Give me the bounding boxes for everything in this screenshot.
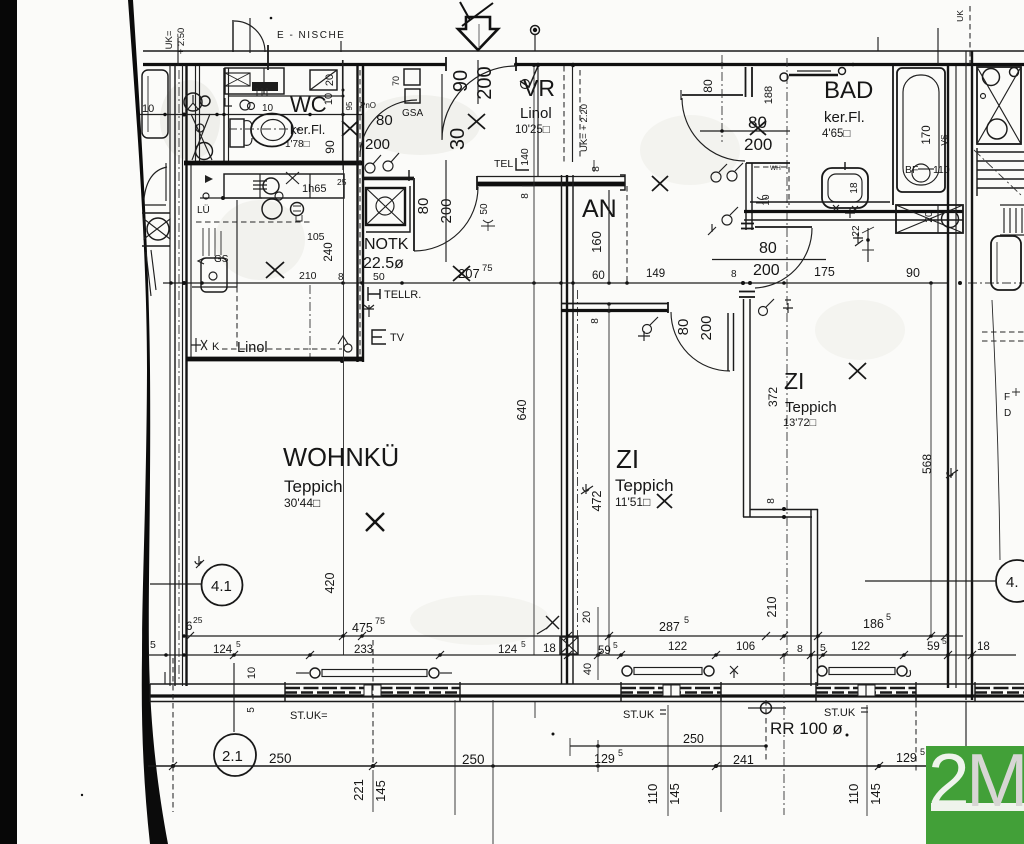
dim line 22 vertical xyxy=(867,228,869,262)
svg-text:5: 5 xyxy=(246,707,257,713)
neighbor dashed pair horizontal xyxy=(982,331,1024,333)
hall door stub wall xyxy=(745,67,747,97)
svg-text:640: 640 xyxy=(515,400,529,421)
svg-text:Teppich: Teppich xyxy=(615,476,674,495)
ZI divider wall upper pair xyxy=(743,299,745,517)
svg-text:UK: UK xyxy=(955,10,965,22)
handle circles near hall xyxy=(711,172,721,182)
top outer wall thick line right of entrance xyxy=(516,63,1024,66)
party wall line c xyxy=(965,51,967,700)
entrance door swing arc xyxy=(442,66,516,140)
GS sink xyxy=(201,258,227,292)
svg-text:Linol: Linol xyxy=(237,340,268,356)
ticks on dim chains xyxy=(186,632,976,659)
hook line to right 4.1 xyxy=(865,580,996,582)
kitchen right wall dashed axis xyxy=(359,70,361,355)
reference circle 2.1 xyxy=(214,734,256,776)
kitchen counter row top xyxy=(224,174,344,198)
left outer wall line b xyxy=(174,65,176,686)
svg-text:1'78□: 1'78□ xyxy=(285,139,310,150)
party wall line b xyxy=(955,66,957,688)
scan page-edge curve xyxy=(128,0,168,844)
svg-text:25: 25 xyxy=(337,177,347,187)
GSA boxes xyxy=(404,69,420,85)
entry boiler circle xyxy=(196,143,213,160)
svg-text:WOHNKÜ: WOHNKÜ xyxy=(283,444,399,472)
entry corridor wall double xyxy=(195,66,197,163)
tick at spine top xyxy=(522,185,534,187)
entry valve circle xyxy=(196,124,204,132)
svg-text:122: 122 xyxy=(851,641,870,653)
upper dim chain y636 xyxy=(183,635,963,637)
svg-text:8: 8 xyxy=(766,498,777,504)
svg-text:ST.UK: ST.UK xyxy=(824,707,856,719)
GS hatch strokes xyxy=(203,228,221,256)
wall below VR thick xyxy=(477,182,625,187)
svg-text:250: 250 xyxy=(462,752,485,767)
hall door swing arc xyxy=(682,98,745,161)
svg-text:4.: 4. xyxy=(1006,574,1019,591)
svg-text:186: 186 xyxy=(863,617,884,631)
bottom outer wall upper line xyxy=(150,683,1024,685)
svg-text:475: 475 xyxy=(352,621,373,635)
svg-text:VR: VR xyxy=(523,75,555,101)
svg-text:10: 10 xyxy=(323,93,335,105)
AN dim line vertical xyxy=(608,190,610,281)
handle circles 010 xyxy=(240,100,250,110)
svg-text:NOTK: NOTK xyxy=(364,236,409,253)
ZI-right door swing arc xyxy=(755,228,812,288)
svg-text:106: 106 xyxy=(736,641,755,653)
svg-text:210: 210 xyxy=(299,270,317,282)
WC right wall xyxy=(342,60,344,161)
svg-text:8: 8 xyxy=(797,643,803,655)
small survey circle on top wall xyxy=(531,26,540,35)
svg-text:TV: TV xyxy=(390,332,405,344)
svg-text:UK= + 2.20: UK= + 2.20 xyxy=(579,104,590,152)
WC door swing arc xyxy=(360,100,417,157)
ZI-right door leaf xyxy=(755,226,812,228)
svg-text:8: 8 xyxy=(731,269,737,280)
svg-text:40: 40 xyxy=(582,663,594,675)
svg-text:80: 80 xyxy=(675,319,692,336)
box with diagonal on top wall xyxy=(310,70,337,90)
svg-text:75: 75 xyxy=(375,616,385,626)
wall below VR thin xyxy=(364,177,414,179)
hook symbol near 472 xyxy=(581,484,593,494)
svg-text:110: 110 xyxy=(846,784,861,805)
svg-text:124: 124 xyxy=(498,644,518,656)
svg-text:80: 80 xyxy=(759,240,777,257)
svg-text:170: 170 xyxy=(921,125,933,144)
svg-text:8: 8 xyxy=(520,193,531,199)
entrance jamb right xyxy=(515,57,517,71)
dash-dot tail below logo line x784 xyxy=(783,655,785,815)
svg-text:129: 129 xyxy=(896,751,917,765)
svg-text:LÜ: LÜ xyxy=(197,204,210,216)
X mark at WC right xyxy=(342,121,358,136)
dim chain line y114 xyxy=(140,114,362,116)
svg-text:145: 145 xyxy=(868,783,883,805)
vertical axis x173 lower xyxy=(172,658,174,812)
NOTK door dim line xyxy=(445,160,447,262)
X tick right of window1 xyxy=(546,616,559,629)
svg-text:10: 10 xyxy=(142,103,154,115)
door handle circles below WC xyxy=(365,163,375,173)
left wall axis dash-dot xyxy=(178,70,180,680)
ZI-right door jamb upper xyxy=(741,223,754,225)
svg-text:250: 250 xyxy=(269,751,292,766)
entrance dim line vertical xyxy=(441,74,443,139)
spine axis dash-dot xyxy=(577,290,579,640)
svg-text:13'72□: 13'72□ xyxy=(783,417,817,429)
svg-text:WC: WC xyxy=(290,92,327,117)
label GS with bracket xyxy=(198,258,204,264)
svg-text:10'25□: 10'25□ xyxy=(515,124,550,136)
party wall line d thick xyxy=(971,51,973,700)
left outer wall line c xyxy=(182,65,184,686)
svg-text:Teppich: Teppich xyxy=(785,399,837,416)
north arrow outline xyxy=(458,17,498,50)
entry small circle xyxy=(200,96,210,106)
svg-text:20: 20 xyxy=(924,211,935,223)
NOTK shaft L-wall xyxy=(362,178,413,180)
stove circles row2 xyxy=(262,199,282,219)
X mark hall xyxy=(652,176,668,191)
NOTK door jamb xyxy=(476,176,478,190)
X mark small counter xyxy=(286,172,299,184)
bathtub inner xyxy=(903,75,939,185)
neighbor valve bowtie xyxy=(142,212,170,214)
drain symbol circle-plus xyxy=(761,703,772,714)
shower cell dashed front xyxy=(754,166,790,168)
entrance jamb left xyxy=(445,57,447,71)
kitchen door hinge symbol xyxy=(338,336,348,344)
svg-text:210: 210 xyxy=(765,597,779,618)
svg-text:22: 22 xyxy=(851,225,862,237)
svg-text:30'44□: 30'44□ xyxy=(284,496,320,510)
svg-text:ST.UK: ST.UK xyxy=(623,709,655,721)
svg-text:250: 250 xyxy=(683,732,704,746)
E-Nische door swing arc xyxy=(234,21,265,52)
AN south wall stub thick xyxy=(561,309,668,312)
top outer wall thin line xyxy=(143,50,1024,52)
svg-text:5: 5 xyxy=(150,639,156,651)
svg-text:22.5ø: 22.5ø xyxy=(363,255,404,272)
spine wall line a xyxy=(561,175,563,684)
reference circle 4.1 right xyxy=(996,560,1024,602)
svg-text:TEL: TEL xyxy=(494,158,513,170)
svg-text:1h65: 1h65 xyxy=(302,183,326,195)
neighbor shaft top-right xyxy=(977,67,1021,144)
VR closet dashed lines xyxy=(563,66,565,162)
window 3 opener xyxy=(817,666,827,676)
svg-text:20: 20 xyxy=(581,611,593,623)
svg-text:F: F xyxy=(1004,392,1010,403)
X-box shaft in bottom wall xyxy=(560,637,578,654)
svg-text:6: 6 xyxy=(186,621,192,633)
svg-text:20: 20 xyxy=(324,74,336,86)
ZI-left door swing arc xyxy=(671,312,730,371)
WC top boundary line xyxy=(228,95,343,97)
small dot marks lower area xyxy=(846,734,849,737)
X mark ZI right xyxy=(849,363,866,379)
NOTK shaft outer L xyxy=(366,186,410,232)
svg-text:5: 5 xyxy=(521,639,526,649)
ZI-left door leaf double xyxy=(727,313,729,371)
svg-text:GS: GS xyxy=(214,254,229,265)
svg-text:240: 240 xyxy=(323,242,335,261)
dot on wall at entrance xyxy=(514,63,518,67)
counter sink circles xyxy=(263,178,279,194)
svg-text:80: 80 xyxy=(415,198,432,215)
svg-text:18: 18 xyxy=(849,182,860,194)
svg-text:200: 200 xyxy=(744,135,772,154)
svg-text:4'65□: 4'65□ xyxy=(822,128,850,140)
closet inner dark bar xyxy=(252,82,278,91)
vertical axis x598 xyxy=(597,607,599,680)
lower dim chain y655 xyxy=(148,654,1016,656)
wall end cap at hall xyxy=(620,175,625,190)
corner marker entry xyxy=(205,175,213,183)
neighbor tall cupboard left xyxy=(142,70,168,138)
ZI-right door jamb lower xyxy=(739,291,755,293)
svg-text:110: 110 xyxy=(645,784,660,805)
window 1 panes xyxy=(285,687,460,690)
svg-text:4.1: 4.1 xyxy=(211,578,232,595)
svg-text:200: 200 xyxy=(474,66,496,99)
kitchen bottom thick wall xyxy=(186,357,364,362)
svg-text:18: 18 xyxy=(543,643,556,655)
bottom dim chain y766 xyxy=(148,765,926,767)
svg-text:5: 5 xyxy=(920,747,925,757)
label K with hook xyxy=(191,338,207,352)
WOHNKÜ dim axis x343 xyxy=(343,165,345,655)
TV bracket xyxy=(372,330,386,344)
small circle below LU xyxy=(203,193,209,199)
door handle symbol near leaf xyxy=(759,307,768,316)
ZI-left dim line x609 lower xyxy=(608,304,610,655)
center dim axis x528 xyxy=(532,63,536,67)
bath south wall thin xyxy=(750,201,890,203)
svg-text:ker.Fl.: ker.Fl. xyxy=(824,109,865,126)
main horizontal dim chain y283 xyxy=(163,282,948,284)
north arrow tail diagonal long xyxy=(462,3,493,26)
ZI divider step horizontal xyxy=(750,509,818,511)
svg-text:124: 124 xyxy=(213,644,233,656)
vertical axis x373 xyxy=(372,640,374,768)
svg-text:5: 5 xyxy=(618,748,623,758)
shaft below tub xyxy=(896,205,963,233)
svg-text:160: 160 xyxy=(589,231,604,253)
E-Nische middle post xyxy=(249,18,251,53)
hook below shaft xyxy=(853,233,863,246)
svg-text:241: 241 xyxy=(733,753,754,767)
svg-text:25: 25 xyxy=(193,615,203,625)
X mark WOHNKÜ xyxy=(366,513,384,531)
svg-text:GSA: GSA xyxy=(402,108,423,119)
axis ticks on y766 xyxy=(169,762,883,770)
svg-text:BAD: BAD xyxy=(824,77,873,104)
closet cross box xyxy=(225,73,250,86)
svg-text:Linol: Linol xyxy=(520,105,552,122)
svg-text:140: 140 xyxy=(519,148,531,166)
E-Nische door leaf xyxy=(232,20,234,52)
shower squiggle xyxy=(756,197,768,203)
svg-text:WH: WH xyxy=(770,165,781,172)
svg-text:30: 30 xyxy=(447,128,469,150)
svg-text:50: 50 xyxy=(479,203,490,215)
bath south wall thick xyxy=(744,210,963,213)
kitchen counter vertical line xyxy=(236,200,238,287)
kitchen dash-dot axis xyxy=(309,285,311,357)
basin tick symbols xyxy=(833,205,858,212)
svg-text:90: 90 xyxy=(450,70,472,92)
svg-text:ZI: ZI xyxy=(784,368,804,394)
svg-text:AN: AN xyxy=(582,195,617,223)
svg-text:149: 149 xyxy=(646,268,665,280)
svg-text:287: 287 xyxy=(659,620,680,634)
north arrow center line xyxy=(478,24,480,48)
dots at step xyxy=(782,507,786,511)
window 1 opener xyxy=(310,668,320,678)
door stop symbol xyxy=(783,300,793,313)
dashed dim axis from wall end xyxy=(626,186,628,283)
svg-text:145: 145 xyxy=(667,783,682,805)
svg-text:11'51□: 11'51□ xyxy=(615,495,650,509)
svg-text:RR 100 ø: RR 100 ø xyxy=(770,719,843,738)
toilet cistern xyxy=(230,119,244,147)
NOTK door leaf xyxy=(413,178,415,251)
svg-text:50: 50 xyxy=(373,271,385,283)
hook symbol above 4.1 xyxy=(195,556,204,568)
svg-text:372: 372 xyxy=(766,387,780,407)
svg-text:60: 60 xyxy=(592,270,605,282)
svg-text:95: 95 xyxy=(345,101,354,110)
svg-text:568: 568 xyxy=(920,454,934,474)
UK level tick line xyxy=(177,38,179,66)
ZI divider wall lower pair xyxy=(810,509,812,686)
dashed level line top right xyxy=(969,6,971,64)
svg-text:Teppich: Teppich xyxy=(284,477,343,496)
X mark BAD door xyxy=(750,121,766,135)
svg-text:122: 122 xyxy=(668,641,687,653)
kitchen lower-left cabinet xyxy=(192,286,237,288)
svg-text:59: 59 xyxy=(598,645,611,657)
bathtub outer xyxy=(897,68,945,192)
E-nische closet box xyxy=(225,68,284,94)
svg-text:ZI: ZI xyxy=(616,444,639,474)
faint scan smudges xyxy=(360,95,480,155)
window 3 panes xyxy=(816,687,916,690)
kitchen left wall xyxy=(190,165,192,359)
VR partition thin line xyxy=(537,66,539,176)
svg-text:75: 75 xyxy=(482,263,493,274)
svg-text:5: 5 xyxy=(684,615,689,625)
svg-text:472: 472 xyxy=(590,491,604,512)
short axis stubs below band xyxy=(720,702,722,812)
neighbor door corner shape xyxy=(144,163,167,205)
svg-text:8: 8 xyxy=(591,166,602,172)
svg-text:59: 59 xyxy=(927,641,940,653)
stub line above wall at x878 xyxy=(877,37,879,51)
svg-text:145: 145 xyxy=(373,780,388,802)
svg-text:2.1: 2.1 xyxy=(222,748,243,765)
toilet bowl xyxy=(251,114,293,147)
svg-text:K: K xyxy=(212,341,220,353)
tick on top line xyxy=(340,41,342,52)
spine wall line c xyxy=(572,175,574,684)
neighbor shelf hatch xyxy=(1004,208,1022,233)
svg-text:5: 5 xyxy=(886,612,891,622)
reference circle 4.1 xyxy=(202,565,243,606)
svg-text:207: 207 xyxy=(458,266,480,281)
TELLR bracket xyxy=(368,287,380,301)
neighbor sink fixture xyxy=(991,236,1021,290)
X mark kitchen xyxy=(266,262,284,278)
svg-text:105: 105 xyxy=(307,231,325,243)
svg-text:D: D xyxy=(1004,408,1011,419)
ZI right dim axis x931 xyxy=(930,283,932,634)
left outer wall line a xyxy=(169,65,171,686)
svg-text:2: 2 xyxy=(928,738,970,822)
svg-text:18: 18 xyxy=(977,641,990,653)
X mark VR door xyxy=(468,114,485,129)
squiggle near 50 xyxy=(481,220,495,231)
svg-text:M: M xyxy=(966,738,1024,822)
vertical axis x493 xyxy=(492,700,494,844)
window 2 opener xyxy=(622,666,632,676)
kitchen counter dashed bottom xyxy=(222,348,342,350)
hook symbol near 568 xyxy=(946,468,958,478)
window 2 panes xyxy=(621,687,721,690)
spine wall line b thick xyxy=(566,175,568,684)
svg-text:200: 200 xyxy=(365,136,390,153)
svg-text:ker.Fl.: ker.Fl. xyxy=(290,122,325,137)
bottom outer wall lower line xyxy=(150,701,1024,703)
window 4 partial right xyxy=(975,687,1024,690)
top outer wall thick line left of entrance xyxy=(143,63,446,66)
north arrow tail diagonal short xyxy=(460,2,470,20)
stub end jamb xyxy=(667,302,669,313)
WC left wall double xyxy=(223,68,225,164)
2M logo underline xyxy=(931,803,1024,811)
scan black left bar xyxy=(0,0,17,844)
WC bottom thick wall xyxy=(184,161,364,166)
kitchen right wall double xyxy=(356,66,358,362)
left outer wall thick line xyxy=(185,65,187,686)
svg-text:200: 200 xyxy=(753,262,780,279)
hall door leaf xyxy=(682,94,743,96)
toilet axis dash-dot xyxy=(228,128,300,130)
antenna symbol xyxy=(364,305,374,317)
washbasin BAD xyxy=(822,168,868,208)
svg-text:5: 5 xyxy=(236,639,241,649)
bottom-left wall corner xyxy=(149,684,151,702)
svg-text:90: 90 xyxy=(906,266,920,280)
svg-text:175: 175 xyxy=(814,265,835,279)
vertical axis x916 xyxy=(915,702,917,772)
svg-text:80: 80 xyxy=(701,79,715,93)
towel rail xyxy=(789,74,838,76)
svg-text:TELLR.: TELLR. xyxy=(384,289,421,301)
svg-text:188: 188 xyxy=(763,86,775,104)
WC dim axis vertical xyxy=(342,60,344,170)
svg-text:E - NISCHE: E - NISCHE xyxy=(277,30,345,41)
kitchen counter dashed line upper xyxy=(196,221,312,223)
svg-text:80: 80 xyxy=(376,112,393,129)
entry brace cross xyxy=(191,114,212,160)
